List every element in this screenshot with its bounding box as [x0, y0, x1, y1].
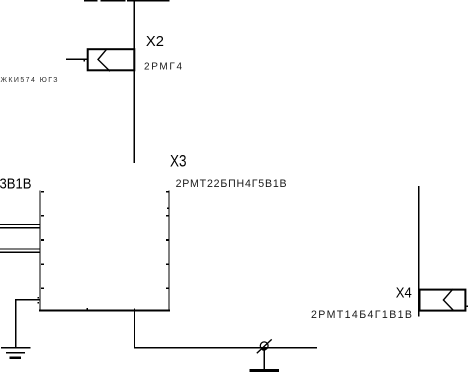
pin tick right line 4	[166, 263, 169, 265]
junction nub above bend	[38, 297, 39, 299]
connector X3 left line	[40, 191, 41, 312]
pin tick right line 3	[166, 239, 169, 241]
connector X2 body	[88, 49, 135, 70]
wire below shield circle	[264, 350, 265, 369]
pin tick right line 2	[166, 215, 169, 217]
junction nub below bend	[38, 302, 39, 304]
junction dot on shield circle	[261, 347, 266, 351]
pin tick left line 5	[41, 287, 44, 289]
wire shield horizontal	[134, 347, 317, 349]
connector X2 chevron	[98, 49, 110, 71]
wire top bus segment 3	[127, 0, 170, 2]
ground bar 2	[6, 352, 25, 354]
connector X3 right line	[169, 191, 170, 312]
stub at right edge of X4	[466, 305, 468, 307]
ground bar 3	[9, 357, 21, 359]
junction tick on bottom bus	[86, 308, 88, 310]
svg-text:X4: X4	[396, 284, 412, 301]
pin tick left line 4	[41, 263, 44, 265]
svg-text:X3: X3	[170, 153, 187, 171]
wire bottom bus of X3	[39, 310, 170, 312]
wire drop from bus	[134, 310, 135, 348]
wire B2 thick into X3	[0, 251, 40, 253]
ground bar 1	[1, 347, 30, 349]
pin tick left line 1	[41, 191, 44, 193]
connector X4 chevron	[443, 289, 453, 311]
connector X4 body	[420, 290, 466, 311]
pin tick left line 3	[41, 239, 44, 241]
pin tick left line 2	[41, 215, 44, 217]
pin tick right line 1	[166, 191, 169, 193]
wire top bus segment 1	[84, 0, 98, 2]
wire X2 vertical line	[134, 1, 135, 163]
shield circle	[260, 342, 268, 350]
svg-text:2РМТ14Б4Г1В1В: 2РМТ14Б4Г1В1В	[311, 309, 412, 321]
svg-text:2РМТ22БПН4Г5В1В: 2РМТ22БПН4Г5В1В	[176, 178, 287, 190]
junction nub at X2 wire	[84, 60, 86, 62]
pin tick right line 5	[166, 287, 169, 289]
wire X4 vertical line	[418, 186, 420, 316]
wire A2 thick into X3	[0, 227, 40, 229]
junction nub above bus at drop	[134, 308, 135, 309]
wire A1 thin into X3	[0, 224, 40, 225]
wire ground bend vertical	[15, 299, 17, 347]
svg-text:3В1В: 3В1В	[0, 176, 32, 192]
wire top bus segment 2	[100, 0, 125, 2]
svg-text:ЖКИ574 ЮГЗ: ЖКИ574 ЮГЗ	[1, 77, 58, 84]
wire B1 thin into X3	[0, 249, 40, 250]
wire ground bend horizontal	[15, 299, 39, 301]
shield slash	[257, 339, 272, 353]
junction nub on right line	[167, 207, 169, 208]
chassis ground bar	[250, 369, 279, 372]
wire into X2	[66, 59, 87, 60]
svg-text:X2: X2	[146, 34, 164, 50]
